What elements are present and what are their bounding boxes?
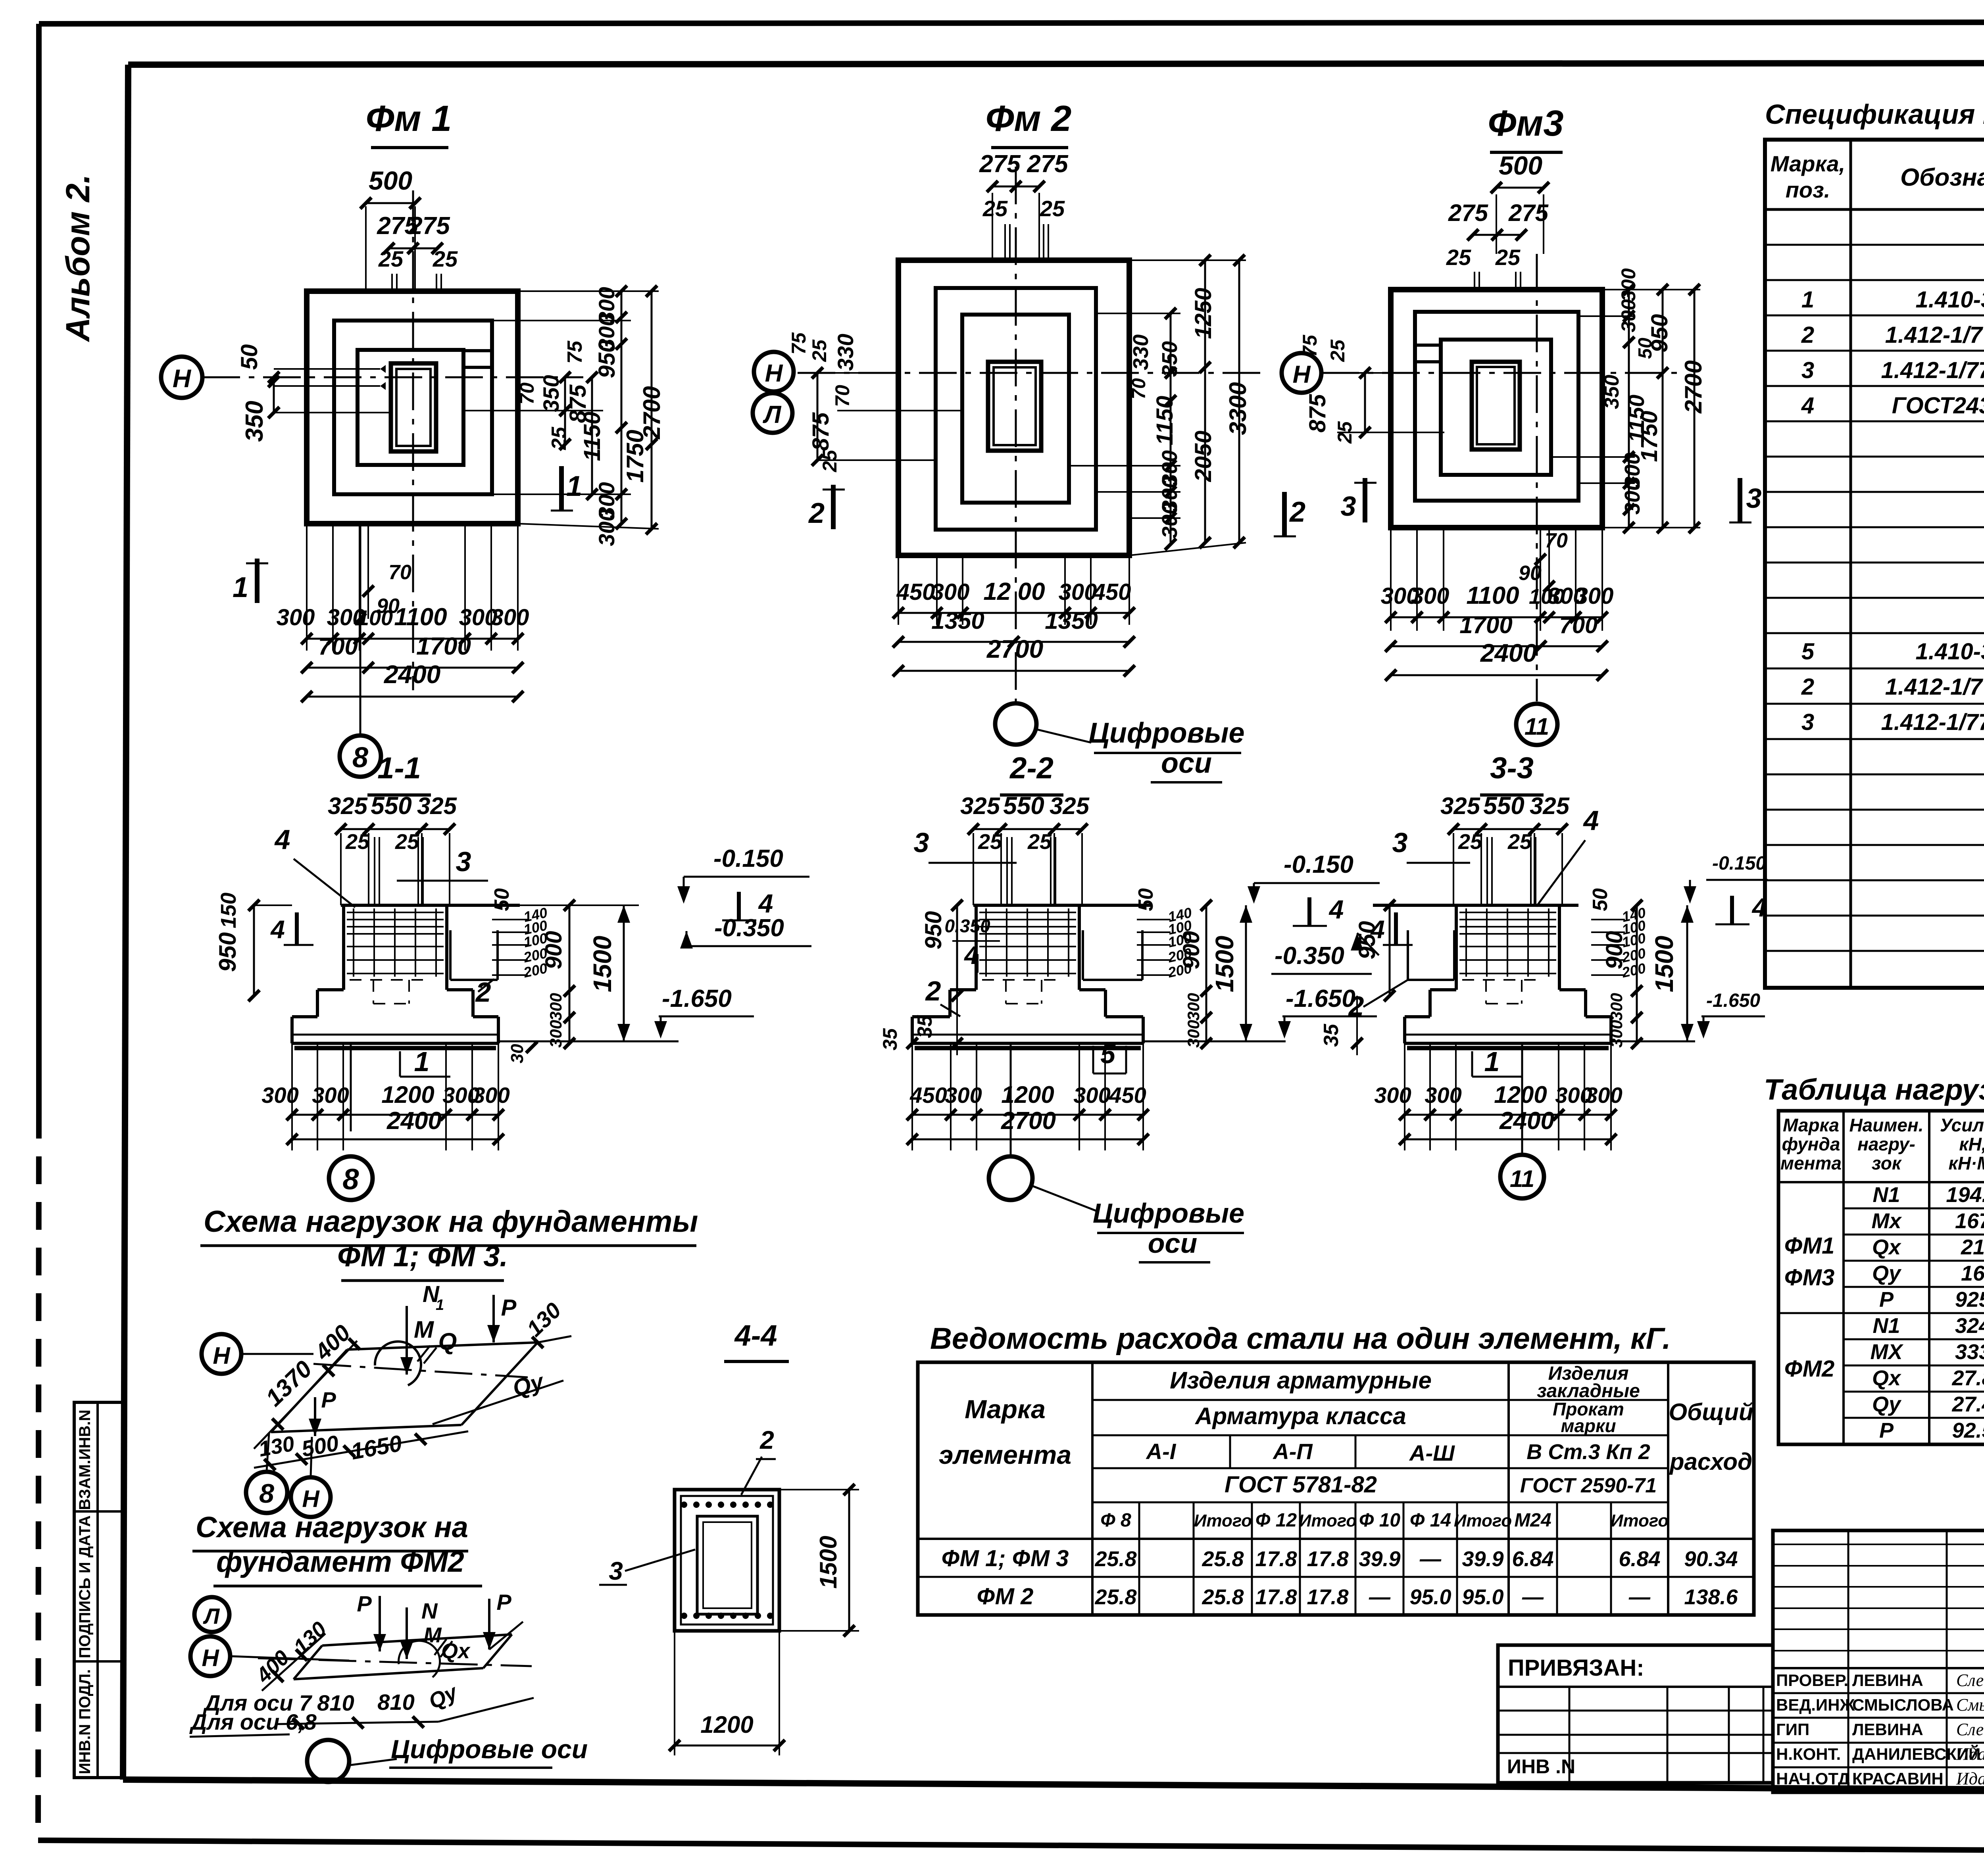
svg-text:Цифровые: Цифровые xyxy=(1088,717,1244,749)
svg-text:300: 300 xyxy=(1184,993,1203,1021)
svg-text:1: 1 xyxy=(1484,1046,1500,1077)
svg-text:25: 25 xyxy=(808,339,831,362)
svg-text:Марка: Марка xyxy=(965,1394,1046,1424)
svg-text:ФМ 1; ФМ 3: ФМ 1; ФМ 3 xyxy=(942,1546,1069,1571)
svg-text:1350: 1350 xyxy=(1045,607,1098,634)
svg-text:8: 8 xyxy=(352,742,368,774)
svg-text:500: 500 xyxy=(369,166,412,195)
svg-text:300: 300 xyxy=(261,1083,298,1108)
plan FM1 inner rect xyxy=(358,350,463,465)
svg-text:Qу: Qу xyxy=(1872,1392,1902,1416)
section 1-1 top dims xyxy=(341,828,450,830)
scheme2 force P right xyxy=(488,1599,490,1649)
svg-text:ГОСТ 5781-82: ГОСТ 5781-82 xyxy=(1225,1472,1377,1498)
svg-text:300: 300 xyxy=(1374,1083,1411,1108)
svg-text:70: 70 xyxy=(831,385,854,407)
svg-text:70: 70 xyxy=(1545,529,1568,552)
svg-text:6.84: 6.84 xyxy=(1619,1547,1660,1571)
svg-text:N1: N1 xyxy=(1872,1314,1900,1338)
scheme2 axis circle L xyxy=(194,1597,229,1632)
svg-text:Qу: Qу xyxy=(1872,1262,1902,1285)
load table frame xyxy=(1778,1111,1984,1444)
svg-text:А-Ш: А-Ш xyxy=(1409,1440,1455,1465)
svg-text:СМЫСЛОВА: СМЫСЛОВА xyxy=(1852,1696,1954,1714)
svg-text:95.0: 95.0 xyxy=(1462,1585,1503,1609)
FM3 bottom ext lines xyxy=(1390,528,1392,631)
svg-text:А-I: А-I xyxy=(1146,1439,1177,1464)
svg-text:3: 3 xyxy=(1392,827,1408,858)
svg-text:4-4: 4-4 xyxy=(734,1319,777,1352)
svg-text:1150: 1150 xyxy=(1152,396,1178,445)
svg-text:расход: расход xyxy=(1669,1448,1752,1475)
svg-text:2700: 2700 xyxy=(1001,1107,1056,1135)
svg-text:1700: 1700 xyxy=(1459,612,1512,638)
FM2 right dim chain A xyxy=(1170,313,1172,544)
svg-text:50: 50 xyxy=(1589,888,1612,911)
svg-text:ФМ2: ФМ2 xyxy=(1784,1356,1835,1382)
axis circle N (FM2) xyxy=(754,352,794,392)
scheme1 force P left xyxy=(314,1397,316,1436)
svg-text:35: 35 xyxy=(913,1015,936,1038)
section 1-1 bottom dim row1 xyxy=(292,1114,498,1116)
svg-text:2700: 2700 xyxy=(1680,360,1707,413)
svg-text:25: 25 xyxy=(548,426,571,450)
section 1-1 dim 900 300 300 xyxy=(569,905,571,1043)
axis line to circle 8 xyxy=(360,524,361,735)
FM2 bottom dim row3 xyxy=(898,670,1129,672)
svg-text:11: 11 xyxy=(1525,713,1549,740)
svg-text:450: 450 xyxy=(909,1083,947,1108)
svg-text:1500: 1500 xyxy=(1650,936,1678,992)
privyazan rows xyxy=(1498,1686,1773,1688)
section 3-3 top dims xyxy=(1453,828,1562,830)
svg-text:30: 30 xyxy=(508,1044,527,1063)
section 2-2 bottom dim row2 xyxy=(912,1139,1143,1141)
FM1 section mark 1 right xyxy=(559,466,564,511)
section 2-2 dim 1500 xyxy=(1245,905,1247,1041)
svg-text:25.8: 25.8 xyxy=(1094,1547,1136,1571)
svg-text:25: 25 xyxy=(433,246,458,271)
section 1-1 wall sleeve xyxy=(449,930,452,980)
svg-text:Р: Р xyxy=(321,1387,336,1412)
svg-text:12 00: 12 00 xyxy=(983,578,1045,605)
axis circle N (FM1) xyxy=(161,357,202,398)
svg-text:Схема нагрузок на фундаменты: Схема нагрузок на фундаменты xyxy=(204,1205,698,1239)
svg-text:1350: 1350 xyxy=(931,607,984,634)
svg-text:Н: Н xyxy=(1293,361,1311,388)
section 1-1 dim 1500 xyxy=(623,905,625,1041)
svg-text:Ф 14: Ф 14 xyxy=(1410,1510,1451,1531)
section 3-3 base slab xyxy=(1405,1042,1611,1045)
FM1 top dim 275 275 xyxy=(389,248,437,250)
svg-text:325: 325 xyxy=(1440,793,1481,819)
svg-text:25: 25 xyxy=(1507,830,1532,854)
svg-text:925: 925 xyxy=(1955,1288,1984,1311)
scheme2 bottom dim 810 810 xyxy=(278,1722,438,1724)
FM1 right dim chain B xyxy=(591,377,593,494)
steel table subcolumn verticals xyxy=(1138,1502,1140,1615)
svg-text:0.350: 0.350 xyxy=(944,916,990,936)
svg-text:25: 25 xyxy=(1027,830,1052,854)
svg-text:2: 2 xyxy=(475,977,491,1008)
svg-text:550: 550 xyxy=(1483,792,1524,820)
svg-text:70: 70 xyxy=(388,561,411,584)
scheme2 centerline xyxy=(258,1658,532,1666)
svg-text:1100: 1100 xyxy=(394,603,447,631)
plan FM3 vertical axis xyxy=(1536,254,1538,701)
load table verticals xyxy=(1842,1111,1845,1444)
svg-text:25: 25 xyxy=(395,830,419,854)
plan FM1 horizontal axis xyxy=(202,376,583,378)
svg-text:5: 5 xyxy=(1100,1039,1116,1069)
title block left narrow rows xyxy=(1773,1544,1984,1545)
FM3 right dim chain C xyxy=(1694,290,1696,528)
spec table frame xyxy=(1765,140,1984,988)
section 2-2 vertical bars above xyxy=(1006,837,1008,905)
svg-text:167: 167 xyxy=(1955,1209,1984,1233)
svg-text:300: 300 xyxy=(1617,268,1640,301)
axis circle 8 (FM1) xyxy=(340,735,381,777)
section 1-1 mark 4 right xyxy=(737,892,741,920)
svg-text:ФМ 1; ФМ 3.: ФМ 1; ФМ 3. xyxy=(337,1240,508,1273)
svg-text:Цифровые: Цифровые xyxy=(1093,1198,1244,1229)
section 2-2 top dims xyxy=(973,828,1082,830)
svg-text:ПОДПИСЬ И ДАТА: ПОДПИСЬ И ДАТА xyxy=(76,1515,94,1658)
svg-text:25: 25 xyxy=(978,830,1002,854)
svg-text:ИНВ.N ПОДЛ.: ИНВ.N ПОДЛ. xyxy=(76,1669,94,1774)
section 1-1 rebar cage xyxy=(347,912,444,913)
svg-text:450: 450 xyxy=(1092,579,1131,605)
plan FM2 horizontal axis xyxy=(798,372,1266,374)
FM2 right dim chain C xyxy=(1238,260,1240,543)
svg-text:2400: 2400 xyxy=(386,1107,442,1135)
svg-text:Для оси 6,8: Для оси 6,8 xyxy=(189,1709,317,1734)
section 2-2 axis note leader xyxy=(1031,1185,1096,1211)
svg-text:325: 325 xyxy=(1530,793,1570,819)
svg-text:92.5: 92.5 xyxy=(1952,1419,1984,1442)
svg-text:950: 950 xyxy=(921,911,946,950)
svg-text:Р: Р xyxy=(357,1591,372,1616)
svg-text:325: 325 xyxy=(1050,793,1090,819)
leader to axis note FM2 xyxy=(1036,729,1091,743)
FM2 section mark 2 left xyxy=(831,485,836,529)
FM2 right ext lines xyxy=(1129,259,1246,261)
svg-text:Итого: Итого xyxy=(1194,1511,1252,1530)
svg-text:39.9: 39.9 xyxy=(1462,1547,1503,1571)
svg-text:6.84: 6.84 xyxy=(1512,1547,1553,1571)
svg-text:ПРИВЯЗАН:: ПРИВЯЗАН: xyxy=(1508,1655,1644,1681)
svg-text:Л: Л xyxy=(763,401,782,428)
svg-text:кН·М.: кН·М. xyxy=(1949,1153,1984,1173)
svg-text:350: 350 xyxy=(241,401,268,442)
svg-text:25.8: 25.8 xyxy=(1094,1585,1136,1609)
svg-text:50: 50 xyxy=(236,344,262,370)
scheme1 axis circles bottom xyxy=(267,1433,269,1471)
svg-text:25: 25 xyxy=(1327,339,1349,362)
plan FM3 outer rect xyxy=(1391,290,1602,528)
svg-text:350: 350 xyxy=(1600,375,1623,409)
svg-text:300: 300 xyxy=(1073,1083,1110,1108)
svg-text:3: 3 xyxy=(1801,709,1814,735)
axis circle L (FM2) xyxy=(753,393,792,433)
plan FM3 channel opening xyxy=(1415,344,1441,347)
svg-text:300: 300 xyxy=(1411,583,1450,609)
svg-text:300: 300 xyxy=(546,993,565,1021)
scheme1 force N1 xyxy=(406,1306,408,1375)
svg-text:Слевина: Слевина xyxy=(1956,1671,1984,1690)
svg-text:8: 8 xyxy=(342,1163,359,1196)
svg-text:3-3: 3-3 xyxy=(1490,751,1534,785)
svg-text:3: 3 xyxy=(456,846,471,877)
scheme1 dim 1370 400 xyxy=(254,1341,357,1449)
svg-text:1.412-1/77-В3-0.60: 1.412-1/77-В3-0.60 xyxy=(1881,709,1984,735)
FM1 bottom dim row2 xyxy=(307,667,518,669)
svg-text:300: 300 xyxy=(1425,1083,1461,1108)
section 2-2 pedestal outline xyxy=(975,905,978,990)
title block left table frame xyxy=(1773,1530,1984,1792)
svg-text:М24: М24 xyxy=(1514,1510,1551,1531)
svg-text:4: 4 xyxy=(1583,805,1599,836)
svg-text:700: 700 xyxy=(318,633,358,660)
svg-text:300: 300 xyxy=(473,1083,509,1108)
scheme2 plate xyxy=(294,1646,322,1679)
svg-text:35: 35 xyxy=(1320,1023,1343,1047)
svg-text:Н.КОНТ.: Н.КОНТ. xyxy=(1776,1745,1841,1763)
section 3-3 rebar cage xyxy=(1459,912,1556,913)
svg-text:27.4: 27.4 xyxy=(1951,1392,1984,1416)
svg-text:550: 550 xyxy=(1003,792,1044,820)
outer border left xyxy=(36,24,42,1111)
privyazan block frame xyxy=(1498,1645,1773,1783)
section 2-2 steps outline xyxy=(950,988,976,991)
svg-text:ВЗАМ.ИНВ.N: ВЗАМ.ИНВ.N xyxy=(76,1409,94,1510)
FM3 section mark 3 left xyxy=(1363,478,1367,522)
section 2-2 axis circle xyxy=(1010,1043,1012,1156)
svg-text:Ф 12: Ф 12 xyxy=(1255,1510,1297,1531)
svg-text:Идан: Идан xyxy=(1956,1744,1984,1764)
plan FM3 inner rect xyxy=(1441,340,1551,475)
svg-text:2: 2 xyxy=(759,1426,774,1454)
svg-text:оси: оси xyxy=(1148,1228,1197,1259)
svg-text:2: 2 xyxy=(1348,991,1364,1022)
svg-text:Таблица нагрузок.: Таблица нагрузок. xyxy=(1764,1073,1984,1106)
svg-text:Q: Q xyxy=(438,1328,457,1355)
inner frame top xyxy=(128,63,1984,65)
section 3-3 bottom dim row2 xyxy=(1405,1139,1611,1141)
svg-text:50: 50 xyxy=(490,888,513,911)
svg-text:300: 300 xyxy=(1575,583,1614,609)
svg-text:Усилия: Усилия xyxy=(1940,1115,1984,1135)
svg-text:1200: 1200 xyxy=(381,1081,434,1108)
svg-text:3: 3 xyxy=(609,1557,623,1585)
svg-text:300: 300 xyxy=(1621,479,1644,515)
svg-text:300: 300 xyxy=(1585,1083,1622,1108)
svg-text:4: 4 xyxy=(1370,915,1385,944)
FM2 bottom dim row2 xyxy=(898,641,1129,643)
FM3 bottom dim row1 xyxy=(1391,616,1602,618)
svg-text:25: 25 xyxy=(1495,245,1521,270)
svg-text:Обозначение: Обозначение xyxy=(1900,164,1984,191)
section 1-1 axis line and circle 8 xyxy=(350,1043,352,1131)
FM1 right dim chain C xyxy=(621,291,623,524)
svg-text:810: 810 xyxy=(377,1690,414,1715)
detail 4-4 column rects xyxy=(697,1516,757,1614)
FM2 bottom dim row1 xyxy=(898,612,1129,614)
section 2-2 base slab xyxy=(912,1042,1143,1045)
plan FM1 outer rect xyxy=(307,291,518,524)
svg-text:N: N xyxy=(421,1598,438,1623)
svg-text:39.9: 39.9 xyxy=(1359,1547,1400,1571)
FM1 section mark 1 left xyxy=(255,559,260,603)
steel table class dividers xyxy=(1229,1435,1231,1468)
svg-text:ГИП: ГИП xyxy=(1776,1720,1809,1739)
svg-text:фунда: фунда xyxy=(1782,1134,1840,1154)
section 2-2 mark 4 right xyxy=(1307,897,1311,925)
section 3-3 vertical bars above xyxy=(1486,837,1488,905)
svg-text:75: 75 xyxy=(1299,334,1321,357)
svg-text:8: 8 xyxy=(259,1479,274,1509)
svg-text:—: — xyxy=(1628,1585,1651,1609)
svg-text:Наимен.: Наимен. xyxy=(1849,1115,1923,1135)
svg-text:Р: Р xyxy=(496,1590,511,1615)
svg-text:25.8: 25.8 xyxy=(1202,1547,1244,1571)
svg-text:3: 3 xyxy=(1341,491,1356,522)
svg-text:-0.150: -0.150 xyxy=(1712,853,1766,874)
svg-text:275: 275 xyxy=(979,150,1021,178)
svg-text:350: 350 xyxy=(538,375,563,412)
section 1-1 steps outline xyxy=(317,988,344,991)
svg-text:50: 50 xyxy=(1134,888,1157,911)
detail 4-4 inner rect xyxy=(681,1496,773,1624)
svg-text:275: 275 xyxy=(1448,200,1489,226)
svg-text:Qх: Qх xyxy=(1872,1235,1901,1259)
svg-text:17.8: 17.8 xyxy=(1307,1585,1348,1609)
svg-text:1100: 1100 xyxy=(1466,582,1519,609)
svg-text:150: 150 xyxy=(217,893,240,928)
svg-text:2700: 2700 xyxy=(638,386,665,439)
svg-text:75: 75 xyxy=(788,332,810,355)
spec table verticals xyxy=(1849,140,1852,988)
svg-text:ЛЕВИНА: ЛЕВИНА xyxy=(1852,1671,1923,1690)
svg-text:Спецификация монолитных фундам: Спецификация монолитных фундаментов ФМ1÷… xyxy=(1765,99,1984,130)
svg-text:—: — xyxy=(1419,1547,1442,1571)
outer border bottom xyxy=(38,1840,1984,1853)
svg-text:1.410-3.1-12: 1.410-3.1-12 xyxy=(1916,287,1984,313)
svg-text:Н: Н xyxy=(765,360,783,387)
plan FM2 outer rect xyxy=(898,260,1129,555)
svg-text:2-2: 2-2 xyxy=(1009,751,1054,785)
svg-text:350: 350 xyxy=(1158,341,1182,377)
section 3-3 top line xyxy=(1373,904,1578,907)
FM1 bottom dim row3 xyxy=(307,696,518,698)
FM1 right dim chain A xyxy=(564,377,566,444)
svg-text:500: 500 xyxy=(1499,151,1542,180)
svg-text:Р: Р xyxy=(1879,1288,1894,1311)
svg-text:900: 900 xyxy=(541,931,567,970)
section 3-3 bottom ext lines xyxy=(1404,1043,1405,1150)
svg-text:300: 300 xyxy=(312,1083,349,1108)
svg-text:Ф 10: Ф 10 xyxy=(1359,1510,1401,1531)
scheme1 centerline xyxy=(313,1364,528,1377)
FM1 right ext lines xyxy=(518,290,659,292)
svg-text:1: 1 xyxy=(566,470,582,502)
svg-text:1200: 1200 xyxy=(1001,1081,1054,1108)
FM3 top dim 275 275 xyxy=(1473,234,1521,236)
svg-text:зок: зок xyxy=(1872,1153,1902,1173)
svg-text:2: 2 xyxy=(1801,322,1814,348)
svg-text:1-1: 1-1 xyxy=(377,751,421,785)
svg-text:-1.650: -1.650 xyxy=(1706,990,1760,1011)
svg-text:1500: 1500 xyxy=(588,936,617,992)
svg-text:16: 16 xyxy=(1961,1262,1984,1285)
svg-text:Ведомость расхода стали на оди: Ведомость расхода стали на один элемент,… xyxy=(930,1322,1671,1356)
scheme2 axis circle N xyxy=(190,1636,230,1676)
svg-text:Арматура класса: Арматура класса xyxy=(1194,1403,1406,1429)
svg-text:Марка: Марка xyxy=(1783,1115,1839,1135)
section 1-1 base slab xyxy=(292,1042,498,1045)
plan FM1 column xyxy=(391,363,436,451)
svg-text:11: 11 xyxy=(1510,1166,1534,1192)
svg-text:Р: Р xyxy=(501,1295,517,1321)
svg-text:В Ст.3 Кп 2: В Ст.3 Кп 2 xyxy=(1526,1440,1650,1464)
plan FM1 middle rect xyxy=(334,321,492,494)
svg-text:М: М xyxy=(424,1623,442,1647)
svg-text:300: 300 xyxy=(491,605,529,630)
svg-text:4: 4 xyxy=(1801,393,1814,419)
svg-text:1250: 1250 xyxy=(1190,288,1216,339)
svg-text:138.6: 138.6 xyxy=(1684,1585,1738,1609)
svg-text:25: 25 xyxy=(1458,830,1482,854)
plan FM2 vertical axis xyxy=(1015,167,1017,701)
svg-text:ФМ1: ФМ1 xyxy=(1784,1233,1835,1259)
svg-text:25: 25 xyxy=(982,196,1008,221)
svg-text:325: 325 xyxy=(328,793,368,819)
FM3 bottom dim row2 xyxy=(1391,645,1602,647)
svg-text:900: 900 xyxy=(1601,931,1627,970)
svg-text:4: 4 xyxy=(274,824,290,855)
svg-text:Цифровые оси: Цифровые оси xyxy=(391,1734,588,1764)
axis circle N (FM3) xyxy=(1282,353,1321,393)
svg-text:2: 2 xyxy=(1289,496,1305,528)
section 3-3 dim 1500 xyxy=(1686,905,1688,1041)
svg-text:-1.650: -1.650 xyxy=(662,985,732,1012)
load table header xyxy=(1778,1181,1984,1183)
FM3 section mark 3 right xyxy=(1738,478,1742,522)
section 1-1 bottom dim row2 xyxy=(292,1139,498,1141)
svg-text:ВЕД.ИНЖ: ВЕД.ИНЖ xyxy=(1776,1696,1855,1714)
svg-text:ПРОВЕР.: ПРОВЕР. xyxy=(1776,1671,1848,1690)
svg-text:330: 330 xyxy=(833,334,858,371)
svg-text:300: 300 xyxy=(277,605,315,630)
outer border top xyxy=(39,22,1984,24)
inner frame left xyxy=(123,65,128,1780)
svg-text:Н: Н xyxy=(173,364,192,393)
detail 4-4 rebar dots xyxy=(681,1502,687,1508)
svg-text:333: 333 xyxy=(1955,1340,1984,1364)
svg-text:90.34: 90.34 xyxy=(1684,1547,1738,1571)
svg-text:Л: Л xyxy=(203,1603,220,1628)
svg-text:кН,: кН, xyxy=(1959,1134,1984,1154)
svg-text:2400: 2400 xyxy=(384,660,440,689)
detail 4-4 dim 1500 xyxy=(779,1489,859,1490)
section 3-3 mark 4 right xyxy=(1730,896,1734,924)
svg-text:ФМ3: ФМ3 xyxy=(1784,1265,1835,1290)
spec table row lines xyxy=(1765,244,1984,246)
svg-text:фундамент ФМ2: фундамент ФМ2 xyxy=(216,1545,464,1578)
FM2 right dim chain B xyxy=(1204,260,1206,543)
load table rows xyxy=(1844,1208,1984,1210)
svg-text:1: 1 xyxy=(1801,287,1814,313)
